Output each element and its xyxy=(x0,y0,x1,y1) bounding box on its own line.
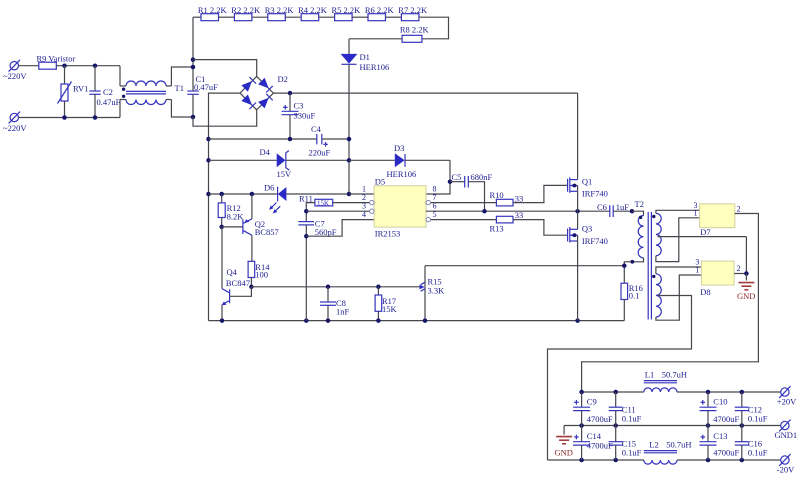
pin bubbles right xyxy=(426,200,430,204)
svg-text:15K: 15K xyxy=(317,199,329,207)
node xyxy=(423,318,428,323)
node xyxy=(448,179,453,184)
node xyxy=(206,192,211,197)
node xyxy=(206,137,211,142)
svg-text:C9: C9 xyxy=(587,396,597,406)
svg-text:0.1uF: 0.1uF xyxy=(748,413,768,423)
svg-text:R3 2.2K: R3 2.2K xyxy=(265,5,295,15)
ground GND at C14 xyxy=(555,426,573,458)
node xyxy=(304,234,309,239)
varistor RV1 xyxy=(58,66,89,118)
resistor R14 xyxy=(248,261,270,287)
capacitor C2 xyxy=(89,66,120,118)
svg-text:-20V: -20V xyxy=(777,464,795,474)
svg-text:R5 2.2K: R5 2.2K xyxy=(332,5,362,15)
wire pin7 xyxy=(426,202,496,204)
node xyxy=(482,209,487,214)
resistor R12 xyxy=(218,194,244,227)
node xyxy=(288,137,293,142)
node xyxy=(93,63,98,68)
terminal J2 ~220V bottom xyxy=(3,112,27,133)
svg-text:4700uF: 4700uF xyxy=(713,447,739,457)
svg-text:Q1: Q1 xyxy=(582,177,592,187)
svg-text:L2: L2 xyxy=(649,439,658,449)
potentiometer R15 xyxy=(420,266,446,321)
wire +20V row xyxy=(582,391,644,393)
capacitor C11 xyxy=(609,392,642,426)
wire r15 to t2 xyxy=(425,265,624,267)
T2 secondary top xyxy=(652,210,746,261)
capacitor C6 xyxy=(597,202,632,217)
svg-text:3.3K: 3.3K xyxy=(428,286,446,296)
wire gnd1 row xyxy=(564,425,781,427)
svg-text:C13: C13 xyxy=(713,431,727,441)
T2 primary winding xyxy=(624,211,643,283)
capacitor C14 xyxy=(573,426,613,461)
svg-text:680nF: 680nF xyxy=(471,172,493,182)
wire pin5 xyxy=(426,219,496,221)
wire xyxy=(419,17,449,39)
capacitor C5 xyxy=(450,172,493,211)
svg-text:IRF740: IRF740 xyxy=(582,236,608,246)
svg-text:~220V: ~220V xyxy=(3,71,27,81)
svg-text:R8 2.2K: R8 2.2K xyxy=(400,25,430,35)
svg-text:+20V: +20V xyxy=(777,396,797,406)
terminal J1 ~220V top xyxy=(3,60,27,81)
wire vcc row xyxy=(209,138,317,140)
svg-text:R11: R11 xyxy=(299,194,313,204)
svg-text:1: 1 xyxy=(694,209,698,218)
inductor L2 xyxy=(644,439,692,464)
resistor R7 xyxy=(386,16,402,18)
wire dc+ rail xyxy=(273,92,577,94)
transistor Q1 IRF740 xyxy=(568,93,608,211)
svg-text:1nF: 1nF xyxy=(336,307,350,317)
svg-text:4700uF: 4700uF xyxy=(713,414,739,424)
node xyxy=(288,91,293,96)
svg-text:D3: D3 xyxy=(394,143,404,153)
svg-text:0.47uF: 0.47uF xyxy=(97,97,121,107)
svg-text:15K: 15K xyxy=(382,304,398,314)
svg-text:C10: C10 xyxy=(713,396,727,406)
rectifier block D8 xyxy=(695,258,740,297)
T2 core xyxy=(647,212,649,320)
svg-text:R1 2.2K: R1 2.2K xyxy=(198,5,228,15)
wire xyxy=(209,159,277,161)
svg-text:T2: T2 xyxy=(635,199,644,209)
resistor R2 xyxy=(219,16,235,18)
T2 secondary bottom xyxy=(548,267,702,460)
capacitor C16 xyxy=(735,426,768,461)
svg-text:1uF: 1uF xyxy=(616,202,630,212)
diode D1 xyxy=(341,39,390,194)
node xyxy=(376,318,381,323)
node xyxy=(93,115,98,120)
svg-text:BC847: BC847 xyxy=(226,278,250,288)
capacitor C15 xyxy=(609,426,642,461)
capacitor C8 xyxy=(320,287,350,321)
svg-text:C6: C6 xyxy=(597,202,607,212)
node xyxy=(744,271,749,276)
resistor R10 xyxy=(490,185,568,206)
svg-text:C5: C5 xyxy=(452,172,462,182)
zener D4 15V xyxy=(260,147,350,179)
svg-text:560pF: 560pF xyxy=(315,227,337,237)
capacitor C4 xyxy=(309,124,350,157)
wire xyxy=(349,193,374,195)
svg-text:D8: D8 xyxy=(700,287,710,297)
svg-text:0.1uF: 0.1uF xyxy=(622,447,642,457)
svg-text:D6: D6 xyxy=(264,182,274,192)
wire xyxy=(349,159,395,161)
ground GND at D8 xyxy=(737,274,755,302)
wire xyxy=(426,160,450,194)
svg-text:L1: L1 xyxy=(645,369,654,379)
capacitor C10 xyxy=(700,392,740,426)
transistor Q4 BC847 xyxy=(222,227,252,321)
svg-text:0.1: 0.1 xyxy=(629,291,640,301)
resistor chain R1 xyxy=(193,16,201,18)
svg-text:GND1: GND1 xyxy=(775,430,798,440)
diode D3 xyxy=(387,143,451,179)
node xyxy=(579,390,584,395)
resistor R5 xyxy=(319,16,335,18)
node xyxy=(249,285,254,290)
svg-text:R13: R13 xyxy=(490,223,504,233)
resistor R3 xyxy=(252,16,268,18)
svg-text:Q4: Q4 xyxy=(227,267,238,277)
wire pin6 xyxy=(426,210,610,212)
LED D6 xyxy=(264,182,349,213)
node xyxy=(191,57,196,62)
svg-text:R6 2.2K: R6 2.2K xyxy=(365,5,395,15)
svg-text:BC857: BC857 xyxy=(255,227,279,237)
terminal -20V xyxy=(777,454,795,474)
wire D7 pin2 to +rail xyxy=(582,214,759,393)
svg-text:RV1: RV1 xyxy=(73,84,88,94)
svg-text:IR2153: IR2153 xyxy=(375,229,401,239)
capacitor C3 xyxy=(282,93,316,139)
node xyxy=(191,65,196,70)
svg-text:C3: C3 xyxy=(294,101,304,111)
svg-text:D4: D4 xyxy=(260,147,271,157)
node xyxy=(575,318,580,323)
resistor R11 xyxy=(299,194,374,222)
capacitor C7 xyxy=(298,219,336,321)
svg-text:33: 33 xyxy=(515,210,524,220)
svg-text:8.2K: 8.2K xyxy=(227,211,245,221)
wire left vertical bus xyxy=(192,17,194,91)
wire pin3 xyxy=(306,210,374,212)
svg-text:50.7uH: 50.7uH xyxy=(662,369,687,379)
node xyxy=(376,285,381,290)
capacitor C13 xyxy=(700,426,740,461)
transformer T1 common-mode choke xyxy=(120,66,184,118)
wire D8 pin2 xyxy=(734,273,746,275)
wire dc- rail xyxy=(209,93,241,321)
svg-text:R9 Varistor: R9 Varistor xyxy=(37,53,76,63)
node xyxy=(62,115,67,120)
svg-text:D2: D2 xyxy=(278,74,288,84)
wire -20V row xyxy=(548,459,644,461)
svg-text:4700uF: 4700uF xyxy=(587,414,613,424)
terminal +20V xyxy=(777,386,797,406)
node xyxy=(630,209,635,214)
node xyxy=(575,209,580,214)
svg-text:R2 2.2K: R2 2.2K xyxy=(231,5,261,15)
bridge rectifier D2 xyxy=(240,74,288,110)
svg-text:~220V: ~220V xyxy=(3,123,27,133)
capacitor C12 xyxy=(735,392,768,426)
node xyxy=(220,318,225,323)
svg-text:33: 33 xyxy=(515,193,524,203)
node xyxy=(326,318,331,323)
wire to bridge bottom xyxy=(193,110,257,126)
node xyxy=(347,137,352,142)
svg-text:HER106: HER106 xyxy=(387,169,417,179)
svg-text:0.1uF: 0.1uF xyxy=(748,447,768,457)
svg-text:1: 1 xyxy=(695,266,699,275)
resistor R4 xyxy=(285,16,301,18)
node xyxy=(219,225,224,230)
wire to center tap xyxy=(745,237,747,274)
svg-text:Q3: Q3 xyxy=(582,224,592,234)
svg-text:GND: GND xyxy=(555,447,573,457)
op-amp U1 IR2153 (D5) xyxy=(362,176,437,238)
svg-text:100: 100 xyxy=(255,270,268,280)
svg-text:R7 2.2K: R7 2.2K xyxy=(398,5,428,15)
capacitor C1 xyxy=(187,74,218,117)
wire row ct xyxy=(251,286,420,288)
wire xyxy=(19,65,39,67)
svg-text:T1: T1 xyxy=(175,83,184,93)
svg-text:4: 4 xyxy=(362,210,366,219)
inductor L1 xyxy=(644,369,687,392)
svg-text:2: 2 xyxy=(737,264,741,273)
svg-text:C14: C14 xyxy=(587,431,602,441)
wire vcc pin1 row xyxy=(209,193,278,195)
node xyxy=(304,318,309,323)
svg-text:50.7uH: 50.7uH xyxy=(666,439,691,449)
node xyxy=(326,285,331,290)
svg-text:D5: D5 xyxy=(375,176,385,186)
svg-text:C4: C4 xyxy=(311,124,322,134)
svg-text:IRF740: IRF740 xyxy=(582,189,608,199)
node xyxy=(347,158,352,163)
node xyxy=(304,209,309,214)
svg-text:HER106: HER106 xyxy=(360,62,390,72)
wire ground rail xyxy=(209,320,625,322)
capacitor C9 xyxy=(573,392,613,426)
node xyxy=(347,192,352,197)
svg-text:D1: D1 xyxy=(360,52,370,62)
node xyxy=(219,192,224,197)
svg-text:C2: C2 xyxy=(103,87,113,97)
rectifier block D7 xyxy=(694,201,741,237)
wire pin4 xyxy=(306,220,374,237)
svg-text:GND: GND xyxy=(737,291,755,301)
node xyxy=(62,63,67,68)
wire xyxy=(349,38,402,40)
node xyxy=(191,115,196,120)
svg-text:R10: R10 xyxy=(490,190,504,200)
svg-text:0.47uF: 0.47uF xyxy=(194,82,218,92)
node xyxy=(622,263,627,268)
svg-text:D7: D7 xyxy=(700,227,710,237)
wire xyxy=(56,65,120,67)
svg-text:R4 2.2K: R4 2.2K xyxy=(298,5,328,15)
svg-text:330uF: 330uF xyxy=(294,111,316,121)
resistor R6 xyxy=(352,16,368,18)
node xyxy=(250,192,255,197)
svg-text:2: 2 xyxy=(737,204,741,213)
svg-text:220uF: 220uF xyxy=(309,147,331,157)
resistor R8 xyxy=(402,35,422,42)
transistor Q2 BC857 xyxy=(222,194,279,261)
wire xyxy=(19,117,121,119)
wire xyxy=(171,100,193,118)
transistor Q3 IRF740 xyxy=(568,211,608,320)
resistor R9 xyxy=(37,53,76,69)
terminal GND1 xyxy=(775,420,798,440)
node xyxy=(206,158,211,163)
resistor R16 xyxy=(621,283,643,321)
resistor R13 xyxy=(490,210,568,235)
svg-text:15V: 15V xyxy=(277,169,293,179)
svg-text:0.1uF: 0.1uF xyxy=(622,413,642,423)
wire to bridge top xyxy=(193,60,257,77)
wire xyxy=(171,67,193,86)
resistor R17 xyxy=(375,287,397,321)
